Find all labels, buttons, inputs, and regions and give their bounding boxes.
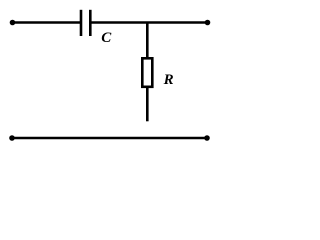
node: bottom-right terminal: [204, 135, 210, 141]
svg-text:C: C: [101, 30, 112, 46]
resistor R body: [142, 58, 152, 87]
wire: resistor bottom stub: [146, 87, 149, 121]
node: top-left terminal: [10, 20, 16, 26]
wire: vertical drop from top rail junction to resistor: [146, 23, 149, 59]
capacitor C (left plate): [80, 10, 83, 36]
wire: top rail, right segment from capacitor: [91, 21, 207, 24]
node: top-right terminal: [205, 20, 211, 26]
wire: bottom rail: [12, 137, 207, 140]
wire: top rail, left segment to capacitor: [13, 21, 81, 24]
node: bottom-left terminal: [9, 135, 15, 141]
capacitor C (right plate): [89, 10, 92, 36]
svg-text:R: R: [163, 72, 174, 88]
